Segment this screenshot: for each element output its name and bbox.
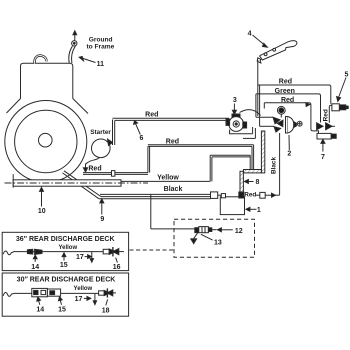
svg-text:Starter: Starter — [90, 129, 111, 136]
wire yellow — [118, 180, 210, 182]
svg-text:13: 13 — [214, 240, 222, 247]
wire red vertical mid — [147, 146, 149, 172]
ground arrow — [74, 35, 76, 41]
dashed link — [130, 249, 174, 251]
svg-text:17: 17 — [76, 254, 84, 261]
svg-text:Yellow: Yellow — [58, 245, 77, 251]
svg-text:Black: Black — [271, 157, 278, 174]
leader 13 — [201, 234, 213, 240]
leader 17 deck1 — [85, 256, 88, 258]
leader 2 — [288, 135, 290, 150]
starter terminal top — [108, 139, 113, 146]
solenoid 3 — [233, 104, 235, 111]
connector 16 — [103, 249, 109, 254]
svg-text:30″ REAR DISCHARGE DECK: 30″ REAR DISCHARGE DECK — [17, 276, 116, 283]
svg-text:17: 17 — [75, 296, 83, 303]
svg-text:10: 10 — [38, 208, 46, 215]
svg-text:to Frame: to Frame — [86, 43, 114, 50]
engine body — [21, 63, 73, 98]
wire black-vertical to battery — [256, 194, 260, 196]
arrow to red wire — [85, 164, 87, 169]
leader 12 — [221, 229, 233, 231]
connector 14 deck1 — [27, 249, 32, 254]
label 9 arrow — [101, 203, 103, 215]
leader 6 — [136, 124, 141, 135]
bar centerline — [5, 182, 149, 184]
leader 15 deck1 — [63, 256, 65, 260]
svg-text:Yellow: Yellow — [157, 175, 179, 182]
wire yellow deck1 — [3, 251, 103, 255]
svg-text:8: 8 — [256, 179, 260, 186]
leader 17 deck2 — [84, 297, 87, 299]
wire black — [100, 193, 211, 195]
svg-text:Red: Red — [281, 97, 294, 104]
svg-text:5: 5 — [344, 71, 348, 78]
svg-text:Red: Red — [279, 78, 292, 85]
leader 8 — [248, 181, 254, 183]
wire B — [243, 137, 255, 139]
leader 14 deck2 — [39, 301, 40, 305]
svg-text:36″ REAR DISCHARGE DECK: 36″ REAR DISCHARGE DECK — [16, 236, 115, 243]
battery 1 — [220, 197, 244, 215]
svg-text:16: 16 — [113, 264, 121, 271]
svg-text:3: 3 — [233, 97, 237, 104]
leader 16 — [116, 258, 118, 263]
svg-text:4: 4 — [248, 30, 252, 37]
svg-text:14: 14 — [31, 264, 39, 271]
svg-text:Ground: Ground — [89, 36, 113, 43]
flywheel — [5, 101, 87, 183]
connector 18 — [99, 291, 105, 295]
bolt 5 — [332, 104, 339, 111]
svg-text:18: 18 — [102, 307, 110, 314]
battery cable 8 hatched — [240, 171, 243, 193]
leader 1 — [250, 208, 257, 210]
svg-text:9: 9 — [100, 216, 104, 223]
wire stub to cluster lower — [260, 125, 274, 127]
svg-text:Red: Red — [322, 109, 329, 121]
connector 12 — [195, 228, 199, 233]
wire to pto connector — [150, 194, 152, 229]
svg-text:15: 15 — [60, 262, 68, 269]
svg-text:1: 1 — [257, 207, 261, 214]
svg-text:12: 12 — [235, 228, 243, 235]
leader 11 — [80, 58, 96, 63]
ground stub deck1 — [91, 252, 93, 259]
bar 10 — [12, 174, 14, 187]
grommet — [277, 106, 285, 114]
wire red top — [258, 85, 331, 104]
svg-text:15: 15 — [58, 306, 66, 313]
connector left — [317, 123, 323, 130]
wire red mid horizontal — [148, 144, 254, 146]
dashed box — [174, 219, 255, 257]
svg-text:Black: Black — [164, 186, 183, 193]
leader 18 — [106, 299, 108, 305]
cable 9 — [64, 171, 101, 197]
svg-text:11: 11 — [97, 61, 105, 68]
wire green — [256, 94, 321, 123]
recoil handle — [35, 56, 47, 64]
wire red mid — [264, 103, 318, 134]
svg-text:Red: Red — [244, 191, 256, 198]
ground terminal circle — [72, 41, 77, 46]
fuse 7 — [317, 133, 331, 139]
leader 7 — [322, 143, 324, 152]
leader 14 deck1 — [34, 259, 36, 262]
wire stub to cluster upper — [256, 116, 273, 118]
wire red starter-bottom — [83, 172, 148, 174]
svg-text:6: 6 — [140, 135, 144, 142]
svg-text:14: 14 — [36, 306, 44, 313]
ground-to-frame wire — [69, 46, 73, 63]
svg-text:Red: Red — [88, 165, 101, 172]
wire red 6 horizontal — [113, 117, 230, 119]
svg-text:Yellow: Yellow — [74, 286, 93, 292]
lever drop wire — [257, 60, 259, 116]
wire yellow deck2 — [3, 293, 98, 297]
deck box 30 — [2, 273, 128, 316]
starter lead bottom — [86, 157, 100, 164]
connector 15 deck2 — [47, 289, 60, 296]
arc solenoid to cluster — [240, 110, 261, 116]
starter — [92, 139, 111, 158]
lever 4 — [260, 41, 297, 60]
wire A — [236, 133, 252, 135]
cluster terminals — [273, 117, 280, 124]
key switch 2 — [286, 117, 288, 134]
ground 13 — [194, 233, 198, 238]
connector right — [326, 123, 332, 130]
leader 5 — [339, 78, 347, 98]
leader 15 deck2 — [60, 300, 61, 305]
wire red starter (6) vertical — [112, 120, 114, 146]
deck box 36 — [2, 232, 128, 270]
svg-text:2: 2 — [287, 150, 291, 157]
svg-text:7: 7 — [321, 154, 325, 161]
ground stub deck2 — [94, 294, 96, 301]
leader 4 — [253, 35, 265, 45]
svg-text:Red: Red — [145, 112, 158, 119]
wire red down to cable — [251, 146, 253, 169]
svg-text:Green: Green — [275, 88, 295, 95]
connector black-battery — [211, 192, 218, 199]
label 10 arrow — [41, 191, 43, 207]
svg-text:Red: Red — [166, 139, 179, 146]
connector tick — [112, 171, 115, 177]
connector 14 deck2 — [32, 288, 48, 296]
